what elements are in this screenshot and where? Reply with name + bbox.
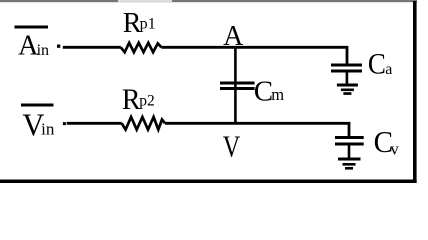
svg-text:A: A [223, 21, 244, 52]
svg-text:p: p [140, 16, 148, 33]
svg-text:in: in [37, 42, 49, 59]
svg-text:R: R [122, 83, 141, 116]
svg-text:a: a [385, 61, 392, 78]
svg-text:v: v [390, 140, 399, 159]
svg-text:C: C [368, 48, 386, 81]
svg-text:in: in [41, 120, 55, 139]
svg-text:C: C [254, 76, 273, 108]
svg-text:p2: p2 [139, 93, 155, 110]
svg-text:V: V [223, 130, 240, 165]
svg-text:1: 1 [148, 16, 156, 33]
svg-text:m: m [271, 85, 284, 104]
